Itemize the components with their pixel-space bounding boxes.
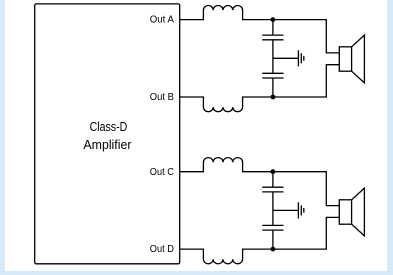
svg-text:Out D: Out D bbox=[150, 244, 174, 255]
svg-text:Out B: Out B bbox=[150, 92, 174, 103]
svg-text:Out C: Out C bbox=[150, 167, 174, 178]
svg-text:Amplifier: Amplifier bbox=[83, 138, 131, 152]
svg-text:Out A: Out A bbox=[150, 15, 175, 26]
svg-text:Class-D: Class-D bbox=[90, 120, 128, 134]
